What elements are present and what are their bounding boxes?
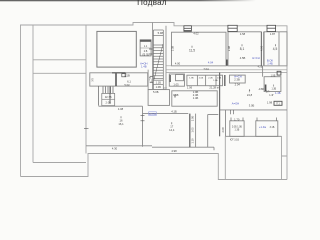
svg-text:1.9Б: 1.9Б (189, 78, 194, 80)
svg-text:4.00: 4.00 (175, 62, 181, 66)
svg-text:1.4Б: 1.4Б (267, 62, 273, 66)
svg-text:2.08: 2.08 (221, 127, 225, 133)
svg-text:1.3Б: 1.3Б (271, 89, 276, 91)
svg-text:5.0Б: 5.0Б (153, 90, 159, 94)
svg-text:1.4В: 1.4В (141, 65, 147, 69)
svg-text:21,28 м: 21,28 м (209, 85, 218, 89)
svg-text:11,5: 11,5 (189, 49, 195, 53)
svg-text:3.0Б: 3.0Б (249, 104, 255, 108)
svg-text:1.0Б: 1.0Б (213, 80, 218, 82)
svg-text:16,1: 16,1 (118, 122, 124, 126)
svg-text:4.98: 4.98 (171, 149, 177, 153)
svg-text:1.1Б: 1.1Б (156, 81, 162, 85)
svg-text:+1.4м: +1.4м (259, 125, 266, 129)
svg-text:4.5В: 4.5В (240, 56, 246, 60)
svg-text:2.0Б: 2.0Б (106, 101, 112, 105)
svg-text:6,1: 6,1 (127, 79, 131, 83)
svg-text:1.98: 1.98 (267, 100, 273, 104)
svg-text:5.1В: 5.1В (124, 73, 130, 77)
svg-text:Н=СН: Н=СН (252, 56, 259, 60)
svg-text:17: 17 (170, 125, 173, 129)
svg-text:Подвал: Подвал (137, 0, 167, 7)
svg-text:4.06: 4.06 (260, 45, 264, 51)
svg-text:2.04: 2.04 (235, 82, 241, 86)
svg-text:2.0Б: 2.0Б (199, 78, 204, 80)
svg-text:А=ОН: А=ОН (232, 102, 239, 106)
svg-text:4.08: 4.08 (118, 107, 124, 111)
svg-text:32.7Б: 32.7Б (105, 95, 112, 99)
svg-text:3.1Б: 3.1Б (270, 127, 275, 129)
svg-text:1.4Б: 1.4Б (275, 91, 281, 95)
svg-text:16: 16 (120, 119, 123, 123)
svg-text:4.1Б: 4.1Б (171, 110, 177, 114)
svg-text:2.0Б: 2.0Б (190, 116, 194, 122)
svg-text:ЮТ 3.1Б: ЮТ 3.1Б (230, 140, 239, 142)
svg-text:2.0Б 1.0Б: 2.0Б 1.0Б (232, 126, 243, 128)
svg-text:1.06: 1.06 (187, 85, 193, 89)
svg-text:7.04: 7.04 (203, 67, 209, 71)
svg-text:Н=СН: Н=СН (234, 74, 241, 78)
svg-text:1.87: 1.87 (270, 32, 276, 36)
svg-text:1.70: 1.70 (234, 117, 240, 121)
svg-text:4.58: 4.58 (240, 32, 246, 36)
svg-text:14,4: 14,4 (169, 128, 175, 132)
svg-text:УЛ: УЛ (90, 78, 94, 82)
svg-text:1.9Б: 1.9Б (271, 75, 276, 77)
svg-text:4.04: 4.04 (208, 61, 214, 65)
svg-text:1.4Г: 1.4Г (269, 95, 274, 97)
svg-text:2.П: 2.П (266, 91, 270, 93)
svg-text:24,8: 24,8 (247, 93, 253, 97)
svg-text:1.4Б: 1.4Б (193, 96, 199, 100)
svg-text:5.0К: 5.0К (124, 83, 130, 87)
svg-text:1.10: 1.10 (190, 138, 194, 144)
svg-text:4,5: 4,5 (273, 47, 278, 51)
svg-text:1.05: 1.05 (190, 127, 194, 133)
svg-text:4.2Б: 4.2Б (258, 67, 263, 69)
svg-text:2.3В: 2.3В (171, 46, 175, 52)
svg-text:4.02: 4.02 (193, 32, 199, 36)
svg-text:8,1: 8,1 (240, 47, 245, 51)
svg-text:5.98: 5.98 (158, 31, 164, 35)
svg-text:1.3Б: 1.3Б (235, 130, 240, 132)
svg-text:4.30: 4.30 (112, 146, 118, 150)
svg-text:1.0Б: 1.0Б (156, 85, 162, 89)
svg-text:1.98: 1.98 (173, 93, 179, 97)
svg-text:Л5 Л5: Л5 Л5 (142, 53, 149, 56)
svg-text:2.4В: 2.4В (227, 46, 231, 52)
svg-text:1.05: 1.05 (173, 83, 179, 87)
svg-text:-0.80: -0.80 (258, 87, 265, 91)
